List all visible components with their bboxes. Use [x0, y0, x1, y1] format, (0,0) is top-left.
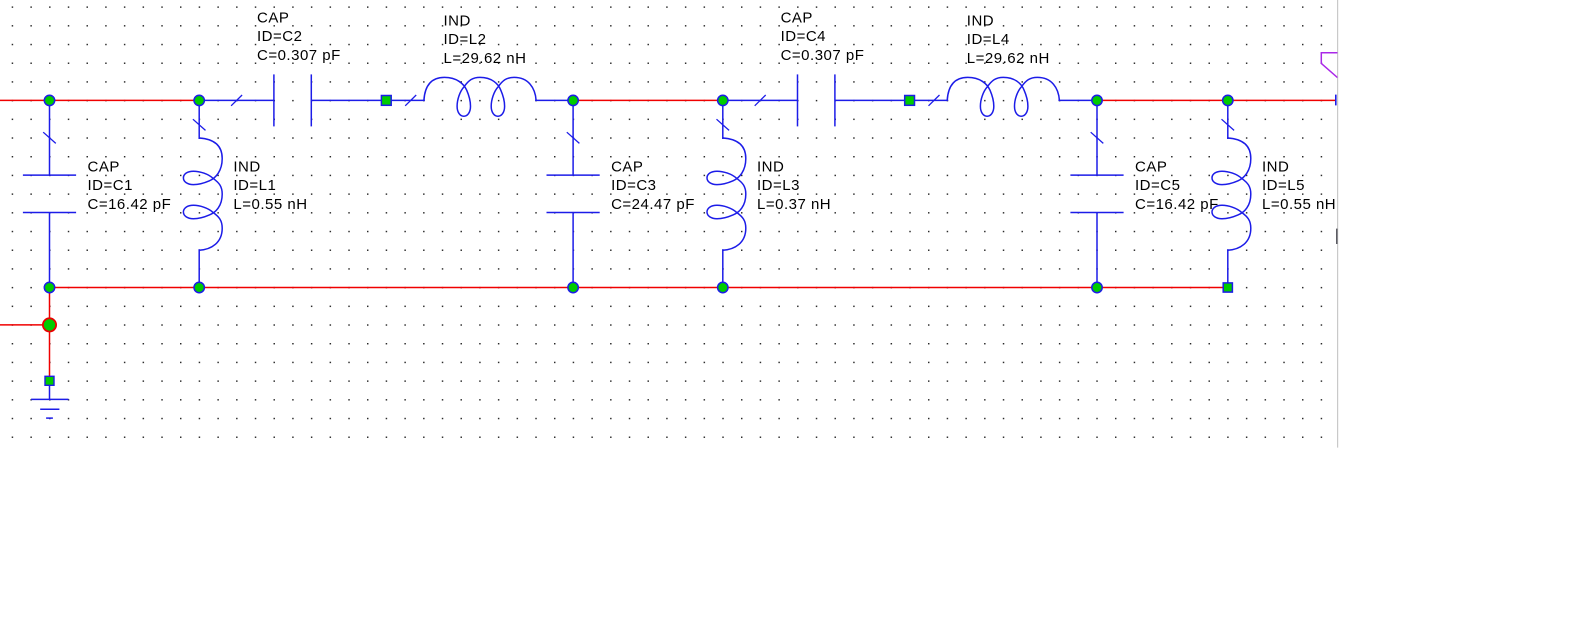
svg-text:CAP: CAP: [257, 9, 289, 26]
svg-text:CAP: CAP: [88, 158, 120, 175]
wire ground branch horizontal: [0, 324, 50, 326]
label C4 value: [781, 9, 865, 63]
label L1 value: [233, 158, 307, 212]
svg-text:IND: IND: [967, 12, 994, 29]
svg-text:ID=C1: ID=C1: [88, 177, 133, 194]
ground net node (selected, red ring): [43, 318, 56, 331]
capacitor C4 (series): [723, 74, 910, 126]
svg-text:L=0.37 nH: L=0.37 nH: [757, 196, 831, 213]
svg-text:ID=L1: ID=L1: [233, 177, 276, 194]
wire ground node to ground terminal: [49, 325, 51, 376]
svg-text:ID=L2: ID=L2: [444, 31, 487, 48]
svg-text:C=24.47 pF: C=24.47 pF: [611, 196, 695, 213]
inductor L4 (series): [910, 77, 1097, 116]
node D (top rail): [718, 95, 728, 105]
ground terminal square: [45, 376, 54, 385]
svg-text:C=16.42 pF: C=16.42 pF: [1135, 196, 1219, 213]
svg-text:L=0.55 nH: L=0.55 nH: [1262, 196, 1336, 213]
node A (top rail): [44, 95, 54, 105]
wire top rail E to port: [1097, 99, 1336, 101]
inductor L1 (shunt): [183, 100, 222, 287]
wire bottom node to ground node: [49, 288, 51, 325]
capacitor C5 (shunt): [1070, 100, 1123, 287]
node E (top rail): [1092, 95, 1102, 105]
svg-text:ID=L5: ID=L5: [1262, 177, 1305, 194]
svg-text:CAP: CAP: [611, 158, 643, 175]
node A2 (bottom rail): [44, 282, 54, 292]
label L2 value: [444, 12, 527, 66]
svg-text:ID=C3: ID=C3: [611, 177, 656, 194]
svg-text:IND: IND: [233, 158, 260, 175]
svg-text:ID=C5: ID=C5: [1135, 177, 1180, 194]
port P1 symbol (clipped): [1321, 53, 1337, 78]
inductor L2 (series): [386, 77, 573, 116]
svg-text:L=29.62 nH: L=29.62 nH: [444, 50, 527, 67]
svg-text:C=0.307 pF: C=0.307 pF: [257, 47, 341, 64]
wire top rail C-D: [573, 99, 723, 101]
node E2 (bottom rail): [1092, 282, 1102, 292]
wire bottom rail: [50, 287, 1228, 289]
terminal square between C2 and L2: [381, 96, 391, 106]
svg-text:IND: IND: [1262, 158, 1289, 175]
svg-text:ID=L3: ID=L3: [757, 177, 800, 194]
inductor L5 (shunt): [1212, 100, 1251, 287]
node C2 (bottom rail): [568, 282, 578, 292]
svg-text:IND: IND: [757, 158, 784, 175]
ground: [31, 385, 68, 418]
svg-text:C=16.42 pF: C=16.42 pF: [88, 196, 172, 213]
svg-text:CAP: CAP: [781, 9, 813, 26]
svg-text:IND: IND: [444, 12, 471, 29]
node C (top rail): [568, 95, 578, 105]
capacitor C2 (series): [199, 74, 386, 126]
port pin tick: [1335, 95, 1337, 106]
svg-text:L=0.55 nH: L=0.55 nH: [233, 196, 307, 213]
wire top rail left (net to node B): [0, 99, 199, 101]
node B2 (bottom rail): [194, 282, 204, 292]
svg-text:C=0.307 pF: C=0.307 pF: [781, 47, 865, 64]
label L4 value: [967, 12, 1050, 66]
label C3 value: [611, 158, 695, 212]
svg-text:L=29.62 nH: L=29.62 nH: [967, 50, 1050, 67]
label L3 value: [757, 158, 831, 212]
node F2 (bottom rail, terminal square): [1223, 283, 1232, 292]
capacitor C1 (shunt): [23, 100, 76, 287]
label C2 value: [257, 9, 341, 63]
node F (top rail): [1223, 95, 1233, 105]
label C5 value: [1135, 158, 1219, 212]
svg-text:ID=C4: ID=C4: [781, 28, 826, 45]
label L5 value: [1262, 158, 1336, 212]
svg-text:ID=L4: ID=L4: [967, 31, 1010, 48]
svg-text:CAP: CAP: [1135, 158, 1167, 175]
node D2 (bottom rail): [718, 282, 728, 292]
capacitor C3 (shunt): [547, 100, 600, 287]
node B (top rail): [194, 95, 204, 105]
clipped element at canvas edge: [1336, 229, 1338, 244]
inductor L3 (shunt): [707, 100, 746, 287]
label C1 value: [88, 158, 172, 212]
terminal square between C4 and L4: [905, 96, 915, 106]
svg-text:ID=C2: ID=C2: [257, 28, 302, 45]
